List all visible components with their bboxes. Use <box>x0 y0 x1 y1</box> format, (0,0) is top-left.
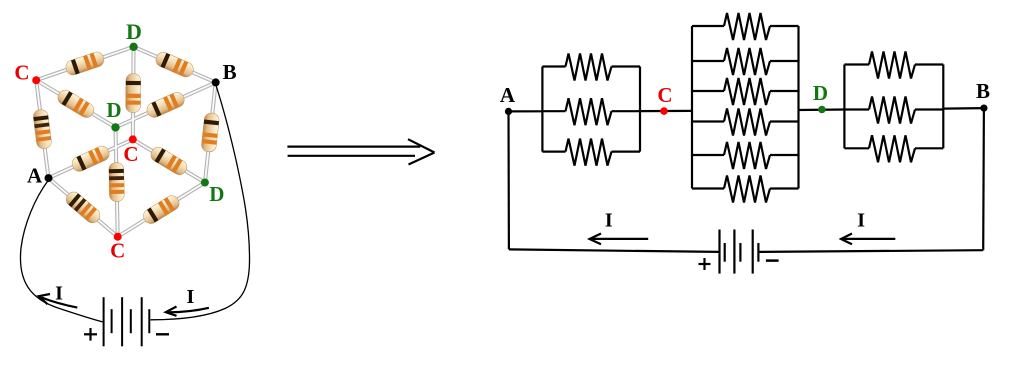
svg-text:C: C <box>110 239 125 263</box>
svg-text:B: B <box>976 79 990 103</box>
svg-text:C: C <box>123 142 138 166</box>
svg-text:B: B <box>223 60 237 84</box>
svg-text:D: D <box>813 81 828 105</box>
svg-text:I: I <box>605 210 613 232</box>
svg-text:C: C <box>657 83 672 107</box>
svg-text:A: A <box>500 83 516 107</box>
svg-text:I: I <box>187 286 195 308</box>
svg-text:D: D <box>106 98 121 122</box>
svg-text:C: C <box>14 61 29 85</box>
svg-text:A: A <box>27 163 43 187</box>
svg-text:I: I <box>55 283 63 305</box>
svg-text:D: D <box>126 19 142 44</box>
svg-text:I: I <box>857 210 865 232</box>
svg-text:D: D <box>209 182 224 206</box>
